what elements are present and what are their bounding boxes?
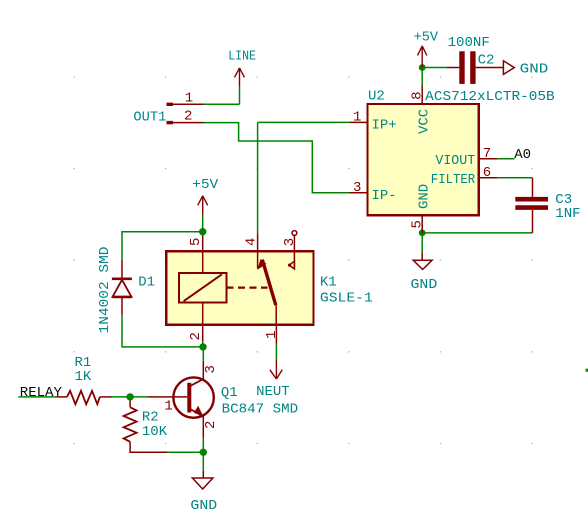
capacitor C2: [447, 51, 503, 84]
svg-text:K1: K1: [320, 274, 337, 290]
svg-text:C2: C2: [478, 53, 495, 69]
svg-text:GND: GND: [411, 277, 438, 293]
connector OUT1 pin 2: [167, 121, 204, 124]
power symbol GND (bottom): [192, 471, 213, 489]
svg-text:ACS712xLCTR-05B: ACS712xLCTR-05B: [425, 89, 555, 105]
svg-text:+5V: +5V: [414, 29, 439, 45]
relay pin 3: [289, 231, 297, 270]
svg-text:IP+: IP+: [372, 118, 397, 134]
svg-text:LINE: LINE: [228, 49, 256, 65]
relay pin 2: [202, 325, 204, 342]
svg-text:6: 6: [483, 165, 491, 181]
relay pin 5: [202, 236, 204, 325]
svg-text:NEUT: NEUT: [256, 384, 290, 400]
svg-text:2: 2: [188, 332, 204, 340]
svg-text:GND: GND: [520, 62, 549, 78]
svg-text:Q1: Q1: [221, 385, 238, 401]
power symbol LINE: [235, 68, 245, 87]
wire OUT1 pin 1 to LINE: [204, 103, 240, 105]
wire relay pin 2 node to Q1 collector: [202, 347, 204, 361]
wire R1 to Q1 base: [110, 396, 148, 398]
IC U2 body: [368, 104, 479, 215]
svg-text:5: 5: [188, 238, 204, 246]
svg-text:3: 3: [203, 365, 219, 373]
relay K1 body: [166, 251, 313, 324]
svg-text:D1: D1: [138, 274, 155, 290]
svg-text:VIOUT: VIOUT: [435, 153, 475, 169]
Q1 emitter arrowhead: [194, 406, 203, 417]
wire RELAY label to R1: [18, 396, 56, 398]
power symbol GND flag (right of C2): [503, 61, 514, 75]
svg-text:1: 1: [164, 399, 172, 415]
U2 pin 8 VCC: [421, 86, 423, 104]
svg-text:10K: 10K: [142, 424, 168, 440]
svg-text:GND: GND: [190, 498, 217, 514]
junction at +5V / C2 / VCC: [419, 64, 426, 71]
svg-text:OUT1: OUT1: [133, 109, 166, 125]
svg-text:3: 3: [282, 238, 298, 246]
wire Q1 emitter to GND node: [202, 437, 204, 452]
wire +5V node to D1 top: [122, 232, 203, 260]
relay dashed link: [227, 287, 268, 289]
svg-text:4: 4: [244, 238, 260, 246]
U2 pin 3 IP-: [350, 192, 368, 194]
relay armature arrowhead: [257, 259, 266, 270]
svg-text:1NF: 1NF: [555, 206, 580, 222]
power symbol GND (below U2): [413, 252, 432, 269]
wire +5V node to C2: [422, 67, 447, 69]
junction at Q1 emitter / R2 / GND: [200, 449, 207, 456]
svg-text:BC847 SMD: BC847 SMD: [222, 402, 299, 418]
wire OUT1 pin 2 to U2 IP-: [204, 123, 350, 193]
svg-text:3: 3: [353, 180, 361, 196]
svg-text:2: 2: [184, 109, 192, 125]
junction at +5V / D1 / relay pin 5: [199, 228, 206, 235]
wire U2 pin 5 to GND symbol: [421, 233, 423, 253]
relay coil: [179, 273, 227, 302]
relay pin 1: [275, 305, 277, 344]
svg-text:+5V: +5V: [192, 177, 219, 193]
resistor R1: [57, 391, 112, 404]
wire IP+ node down to relay K1 pin 4: [257, 122, 259, 233]
wire +5V (relay) stem: [202, 215, 204, 232]
svg-text:A0: A0: [514, 147, 531, 163]
transistor Q1: [148, 361, 214, 438]
wire +5V node to relay pin 5: [202, 232, 204, 236]
wire C3 bottom to GND net: [422, 232, 532, 234]
wire GND node to GND symbol: [202, 452, 204, 471]
power symbol +5V (top): [418, 46, 427, 68]
power symbol +5V (relay): [198, 196, 208, 215]
U2 pin 5 GND: [421, 215, 423, 233]
svg-text:8: 8: [410, 91, 426, 99]
power symbol NEUT arrow: [270, 360, 282, 379]
capacitor C3: [515, 178, 548, 233]
resistor R2: [124, 401, 167, 453]
svg-text:GSLE-1: GSLE-1: [320, 290, 373, 306]
svg-text:VCC: VCC: [417, 109, 433, 134]
wire relay pin 2 stub: [202, 342, 204, 347]
junction at relay pin 2 / D1 / Q1 collector: [199, 343, 206, 350]
wire +5V to U2 VCC pin 8: [421, 68, 423, 87]
svg-text:5: 5: [410, 220, 426, 228]
junction at U2 GND / C3: [419, 230, 426, 237]
svg-text:100NF: 100NF: [448, 35, 490, 51]
wire D1 bottom to relay pin 2 node: [122, 315, 203, 347]
wire stub at right edge: [586, 369, 588, 372]
wire R2 bottom to GND node: [167, 451, 203, 453]
svg-text:7: 7: [483, 146, 491, 162]
svg-text:IP-: IP-: [372, 188, 397, 204]
svg-text:2: 2: [203, 421, 219, 429]
svg-text:RELAY: RELAY: [20, 385, 63, 401]
wire U2 FILTER to C3: [497, 177, 533, 179]
U2 pin 7 VIOUT: [479, 158, 497, 160]
wire LINE stem to OUT1 pin 1: [239, 87, 241, 104]
U2 pin 6 FILTER: [479, 177, 497, 179]
relay armature contact: [262, 260, 276, 306]
svg-text:1: 1: [353, 110, 361, 126]
relay pin 4: [257, 234, 259, 269]
wire relay pin 1 to NEUT: [275, 344, 277, 360]
svg-text:U2: U2: [368, 89, 385, 105]
U2 pin 1 IP+: [350, 121, 368, 123]
svg-text:1: 1: [185, 91, 193, 107]
wire U2 IP+ horizontal: [258, 121, 350, 123]
svg-text:FILTER: FILTER: [431, 172, 476, 188]
svg-text:1N4002 SMD: 1N4002 SMD: [97, 247, 113, 334]
junction at R1 / R2 / Q1 base: [126, 393, 133, 400]
svg-text:1: 1: [264, 331, 280, 339]
svg-text:1K: 1K: [75, 369, 92, 385]
wire U2 VIOUT to label A0: [497, 158, 515, 160]
connector OUT1 pin 1: [167, 103, 204, 106]
diode D1: [112, 260, 132, 315]
